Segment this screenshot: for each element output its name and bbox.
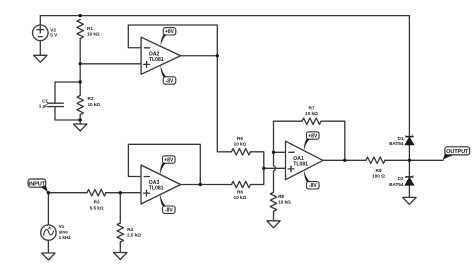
wire R6 to node column A [251,184,264,186]
power +8V (OA1) [304,132,319,151]
wire R7 to output node [321,121,345,160]
svg-text:-8V: -8V [165,208,173,214]
ground (V2) [34,55,47,62]
ground (D2) [403,197,416,204]
resistor R1 [77,20,83,39]
svg-text:TL081: TL081 [293,161,308,167]
label R3 [90,200,104,211]
resistor R9 [366,157,385,163]
resistor R5 [232,149,251,155]
node R7/out [343,159,346,162]
svg-text:10 kΩ: 10 kΩ [305,111,318,116]
wire D1 column from rail [408,16,410,136]
svg-text:1 kHz: 1 kHz [59,235,72,240]
wire OA2 output down to R5 [217,56,231,152]
svg-text:10 kΩ: 10 kΩ [234,195,247,200]
svg-text:D1: D1 [397,136,403,141]
svg-text:5 V: 5 V [50,33,58,38]
node C1 bottom/R2 [79,118,82,121]
wire R8 bottom to ground [273,211,275,221]
wire R1 bottom to node [79,39,81,64]
op-amp OA2 [141,37,181,74]
power +8V (OA2) [160,28,175,47]
svg-text:INPUT: INPUT [29,181,46,187]
label OA3 [149,180,160,186]
resistor R2 [77,96,83,115]
node + tap [262,167,265,170]
wire node B down with hop over + wire [274,121,276,192]
label R9 [372,168,385,179]
INPUT terminal flag [28,179,48,193]
power -8V (OA3) [160,195,175,214]
wire D2 base to ground [408,185,410,197]
label R4 [127,227,141,238]
label V1 [59,224,72,240]
svg-text:R9: R9 [376,168,382,173]
resistor R3 [87,190,106,196]
wire R5 to node column A [251,152,264,185]
power +8V (OA3) [160,156,175,175]
svg-text:10 kΩ: 10 kΩ [234,142,247,147]
label R7 [305,106,318,117]
wire node to OA2 + input [80,63,141,65]
voltage source V2 [33,25,49,41]
ground (R8) [267,221,280,228]
resistor R6 [232,181,251,187]
resistor R4 [117,223,123,242]
wire C1 branch bottom [55,107,80,120]
op-amp OA3 [141,165,181,204]
svg-text:R4: R4 [127,227,133,232]
label OA2 [149,51,160,57]
resistor R7 [302,118,321,124]
resistor R8 [270,192,276,211]
power -8V (OA1) [304,170,319,189]
label OA2 part [149,57,164,63]
svg-text:TL081: TL081 [149,186,164,192]
ground (R4) [114,253,127,260]
wire D1 base to output node [408,145,410,161]
ground (V1) [42,253,55,260]
op-amp OA1 [286,141,324,180]
svg-text:2.5 kΩ: 2.5 kΩ [127,233,141,238]
diode D1 BAT54 [405,138,413,145]
svg-text:-8V: -8V [166,78,174,84]
label D2 value [389,182,404,187]
svg-text:+8V: +8V [165,29,175,35]
label R6 [234,189,247,200]
svg-text:10 kΩ: 10 kΩ [278,199,291,204]
label OA1 part [293,161,308,167]
svg-text:BAT54: BAT54 [389,182,404,187]
label R5 [234,136,247,147]
wire V1 bottom to ground [47,240,49,253]
node OA3 out [199,183,202,186]
svg-text:10 kΩ: 10 kΩ [88,102,101,107]
wire V2 bottom lead [39,41,41,56]
wire R7 feedback top [274,120,303,122]
wire INPUT node to R3 [48,192,87,194]
label OA1 [293,156,304,162]
svg-text:V1: V1 [59,224,65,229]
svg-text:R3: R3 [94,200,100,205]
wire output node to D2 [408,160,410,175]
wire OA2 feedback loop [128,25,217,56]
svg-text:V2: V2 [50,27,56,32]
node C1 top tap [79,80,82,83]
node INPUT node [47,191,50,194]
node rail/R1 [79,14,82,17]
wire OA3 output to R6 [200,184,231,186]
OUTPUT terminal flag [443,147,470,161]
node R1/R2/OA2+ [79,62,82,65]
capacitor C1 [48,103,64,106]
label D1 [397,136,403,141]
svg-text:10 kΩ: 10 kΩ [87,32,100,37]
svg-text:2: 2 [412,174,414,178]
wire V2 top lead [39,16,41,25]
wire + input tap to OA1 [264,167,286,169]
diode D2 BAT54 [405,178,413,185]
svg-text:R8: R8 [278,194,284,199]
voltage source V1 sine [41,225,56,240]
wire OA3 feedback loop [128,144,200,184]
label R1 [87,26,100,37]
svg-text:5.5 kΩ: 5.5 kΩ [90,205,104,210]
power -8V (OA2) [160,66,175,85]
wire OA3 output [181,184,201,186]
wire OA1 output to R9 [323,159,366,161]
wire OA2 output [181,55,218,57]
svg-text:-8V: -8V [309,183,317,189]
wire R4 bottom to ground [119,242,121,253]
ground (R2) [74,124,87,131]
wire R9 to output node [385,159,443,161]
label R2 [88,96,101,107]
label D2 [397,176,403,181]
svg-text:R6: R6 [237,189,243,194]
svg-text:TL081: TL081 [149,57,164,63]
wire R4 top lead [119,193,121,223]
node diode node [408,159,411,162]
svg-text:R1: R1 [87,26,93,31]
wire INPUT node down to V1 [47,193,49,225]
svg-text:BAT54: BAT54 [389,141,404,146]
wire OA1 - input [274,151,286,153]
label D1 value [389,141,404,146]
node OA2 out [216,54,219,57]
label V2 [50,27,58,37]
node - tap [272,151,275,154]
label C1 [39,98,49,108]
svg-text:OUTPUT: OUTPUT [446,149,469,155]
wire node to R2 top [79,64,81,96]
svg-text:R2: R2 [88,96,94,101]
svg-text:sine: sine [59,230,69,235]
label R8 [278,194,291,204]
svg-text:R7: R7 [309,106,315,111]
svg-text:+8V: +8V [164,157,174,163]
svg-text:+8V: +8V [308,133,318,139]
wire top +5V rail [40,15,409,17]
svg-text:R5: R5 [237,136,243,141]
node R3/R4 [119,191,122,194]
svg-text:1 µF: 1 µF [39,103,48,108]
wire R2 bottom to ground [79,115,81,125]
wire R3 to OA3 + input [106,192,141,194]
svg-text:100 Ω: 100 Ω [372,174,385,179]
wire C1 branch top [55,82,80,103]
svg-text:D2: D2 [397,176,403,181]
label OA3 part [149,186,164,192]
